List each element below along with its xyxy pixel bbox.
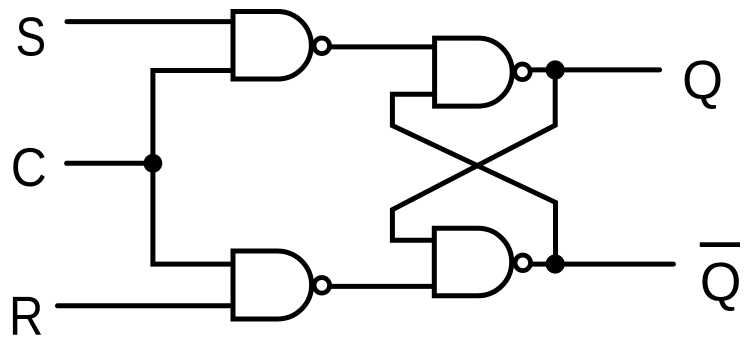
wire S input: [67, 19, 235, 24]
wire C input: [67, 161, 153, 166]
junction dot node C: [144, 154, 163, 173]
svg-text:R: R: [9, 286, 43, 347]
nand gate U3 bubble: [515, 64, 531, 80]
wire U2 output to U4 input: [330, 284, 436, 289]
wire Qbar output: [530, 262, 673, 267]
nand gate U4 body: [434, 228, 511, 295]
wire U1 output to U3 input: [329, 44, 436, 49]
nand gate U4 bubble: [515, 255, 531, 271]
svg-text:Q: Q: [700, 251, 742, 312]
junction dot node Qbar: [546, 254, 565, 273]
wire R input: [58, 303, 236, 308]
nand gate U2 body: [233, 251, 312, 319]
wire feedback Qbar to U3 lower input: [392, 94, 555, 264]
wire feedback Q to U4 upper input: [392, 70, 555, 240]
nand gate U2 bubble: [314, 278, 330, 294]
nand gate U1 bubble: [314, 38, 330, 54]
nand gate U3 body: [435, 38, 513, 106]
wire Q output: [530, 67, 660, 72]
wire C branch vertical with U1 and U2 input stubs: [153, 71, 235, 265]
label Qbar overline: [700, 242, 740, 247]
nand gate U1 body: [233, 11, 311, 79]
svg-text:C: C: [11, 137, 47, 198]
svg-text:Q: Q: [682, 49, 723, 110]
svg-text:S: S: [16, 6, 47, 67]
junction dot node Q: [546, 60, 565, 79]
